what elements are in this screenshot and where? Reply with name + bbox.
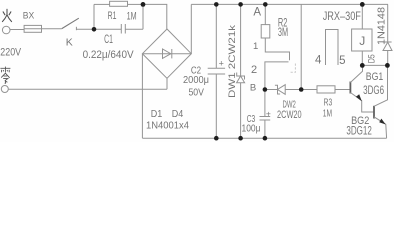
transistor BG1 emitter xyxy=(350,93,373,113)
wire C1 right plate to corner xyxy=(125,28,143,30)
relay linkage dashed xyxy=(289,64,295,73)
svg-text:R1: R1 xyxy=(108,10,117,22)
wire DW2 to junction xyxy=(285,89,301,91)
wire C2 lower xyxy=(215,74,217,138)
wire dot1 up to relay coil xyxy=(361,51,363,65)
wire C1 corner up to rail xyxy=(142,4,144,29)
svg-text:D1: D1 xyxy=(151,109,163,120)
resistor R1 xyxy=(110,1,128,6)
relay coil box J xyxy=(352,29,372,51)
transistor BG2 collector xyxy=(374,65,388,106)
capacitor C1 plates xyxy=(120,24,122,34)
resistor R3 xyxy=(317,86,335,93)
junction node A at DC+ rail xyxy=(263,2,268,7)
svg-text:100μ: 100μ xyxy=(242,123,261,134)
svg-text:5: 5 xyxy=(339,55,345,67)
junction DW1 at bottom rail xyxy=(238,136,243,141)
wire dot1 to dot2 xyxy=(362,64,387,66)
svg-text:R3: R3 xyxy=(324,98,333,109)
capacitor C3 lead lower xyxy=(264,120,266,138)
DC+ top rail xyxy=(191,3,388,5)
junction C3 at bottom rail xyxy=(263,136,268,141)
svg-text:2: 2 xyxy=(251,64,257,76)
svg-text:1: 1 xyxy=(253,41,258,52)
svg-text:BG1: BG1 xyxy=(366,71,384,83)
svg-text:0.22μ/640V: 0.22μ/640V xyxy=(83,49,135,61)
bridge internal diode line xyxy=(142,53,191,55)
transistor BG2 emitter arrow xyxy=(379,119,385,125)
svg-text:1N4001x4: 1N4001x4 xyxy=(146,120,190,131)
svg-text:220V: 220V xyxy=(0,46,21,58)
wire R2 lead from node A xyxy=(264,4,266,24)
wire to R1 xyxy=(94,3,110,5)
svg-text:BX: BX xyxy=(23,11,35,22)
wire C2 branch upper xyxy=(215,4,217,68)
svg-text:JRX–30F: JRX–30F xyxy=(323,9,361,23)
diode D5 upper lead xyxy=(387,4,389,42)
wire node B to DW2 xyxy=(265,89,278,91)
svg-text:C1: C1 xyxy=(104,34,113,46)
svg-text:K: K xyxy=(66,37,73,49)
neutral wire xyxy=(8,88,167,90)
svg-text:DW1 2CW21k: DW1 2CW21k xyxy=(227,25,238,98)
neutral terminal circle xyxy=(1,86,8,93)
switch K blade xyxy=(62,18,79,28)
svg-text:3DG6: 3DG6 xyxy=(363,85,384,97)
wire junction up to rail xyxy=(300,4,302,89)
wire DW1 upper xyxy=(240,4,242,76)
diode D5 triangle xyxy=(383,42,392,50)
svg-text:2CW20: 2CW20 xyxy=(277,109,302,121)
Chinese char 零 (neutral) xyxy=(0,67,10,84)
diode D5 lower lead xyxy=(387,51,389,66)
svg-text:1M: 1M xyxy=(127,11,137,23)
junction relay coil at DC+ rail xyxy=(360,2,365,7)
svg-text:3M: 3M xyxy=(278,27,288,39)
resistor R2 xyxy=(261,25,270,38)
junction BG1 collector node xyxy=(360,63,365,68)
junction DW2-R3 node xyxy=(299,87,304,92)
capacitor C3 plates xyxy=(260,116,271,118)
bottom rail xyxy=(142,137,386,139)
zener DW1 triangle xyxy=(237,76,245,83)
junction node B xyxy=(263,87,268,92)
relay contact 4-5 bracket xyxy=(326,30,339,66)
fuse BX xyxy=(24,25,41,32)
wire fuse to switch xyxy=(42,28,62,30)
svg-text:+: + xyxy=(266,108,271,118)
svg-text:50V: 50V xyxy=(188,87,204,99)
wire junction to R3 xyxy=(301,89,317,91)
wire bridge right vertex up to DC rail xyxy=(190,4,192,53)
svg-text:D4: D4 xyxy=(172,109,184,120)
svg-text:4: 4 xyxy=(315,55,322,67)
svg-text:B: B xyxy=(250,83,256,94)
svg-text:J: J xyxy=(359,34,365,48)
wire bridge left vertex down to bottom rail xyxy=(141,54,143,139)
svg-text:2000μ: 2000μ xyxy=(183,74,209,86)
junction DW1 at DC+ rail xyxy=(238,2,243,7)
transistor BG2 emitter xyxy=(374,117,387,138)
wire live terminal to fuse xyxy=(10,29,24,31)
svg-text:1N4148: 1N4148 xyxy=(376,7,387,45)
bridge internal diode bar xyxy=(171,49,173,58)
wire bridge bottom vertex down xyxy=(166,78,168,89)
junction switch-C1-R1 node xyxy=(92,27,97,32)
junction C2 at bottom rail xyxy=(214,136,219,141)
svg-text:D5: D5 xyxy=(367,54,377,63)
wire R2 bottom to contact pin 1 step xyxy=(265,38,289,60)
wire junction to C1 left plate xyxy=(94,28,121,30)
relay contact arm pin 2 xyxy=(265,62,289,90)
svg-text:A: A xyxy=(253,6,261,18)
wire R3 to BG1 base xyxy=(335,89,350,91)
zener DW1 bar with hooks xyxy=(237,73,245,80)
diode D5 bar xyxy=(383,41,392,43)
live terminal circle xyxy=(2,26,10,34)
svg-text:3DG12: 3DG12 xyxy=(346,125,372,137)
capacitor C2 plates xyxy=(208,67,225,69)
svg-text:+: + xyxy=(219,59,224,69)
wire R1 branch left vertical xyxy=(93,4,95,29)
switch K fixed contact tick xyxy=(75,27,77,30)
capacitor C3 lead upper xyxy=(264,90,266,117)
bridge rectifier D1-D4 diamond xyxy=(142,29,191,78)
junction C2 at DC+ rail xyxy=(214,2,219,7)
wire DW1 lower xyxy=(240,83,242,138)
wire R1 to dot xyxy=(128,3,144,5)
transistor BG1 base bar xyxy=(349,82,351,94)
zener DW2 bar with hooks xyxy=(275,85,280,94)
transistor BG1 emitter arrow xyxy=(356,94,362,101)
junction R1-C1-rail node xyxy=(141,2,146,7)
zener DW2 triangle xyxy=(278,85,286,95)
svg-text:1M: 1M xyxy=(323,108,332,119)
Chinese char 火 (live) xyxy=(2,9,11,21)
transistor BG1 collector xyxy=(350,65,362,82)
relay coil lead to rail xyxy=(361,4,363,29)
junction D5-BG2 collector node xyxy=(385,63,390,68)
bridge internal diode triangle xyxy=(163,49,171,58)
transistor BG2 base bar xyxy=(373,106,375,119)
wire top rail to bridge top xyxy=(143,4,167,29)
wire switch to junction xyxy=(76,28,94,30)
